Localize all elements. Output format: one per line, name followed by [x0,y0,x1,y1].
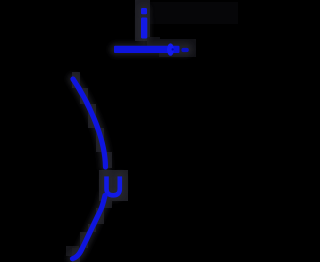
glow halo block behind arrowhead region [159,39,196,57]
reagent label i : dot [141,8,147,14]
reaction arrow head [167,43,174,55]
atom label u [107,176,120,195]
compression-block halo steps along upper bond curve [72,72,112,168]
soft grey halo following all strokes [73,11,187,259]
reaction arrow tip dash [181,48,188,52]
faint residual band top right [150,2,238,24]
reagent label i : stem bar [141,18,147,39]
glow halo block behind label i [135,0,150,41]
faint strip left of arrowhead above shaft [147,37,160,46]
glow halo block at curve tail tip [66,246,79,256]
reaction arrow head dark notch [172,48,174,50]
bond curve from upper left down to atom label [73,79,106,167]
compression-block halo steps along lower bond curve [72,200,112,262]
reaction arrow shaft [114,46,180,53]
bond curve from atom label down to lower left tail [73,196,106,259]
glow halo block behind atom label u [99,170,128,201]
